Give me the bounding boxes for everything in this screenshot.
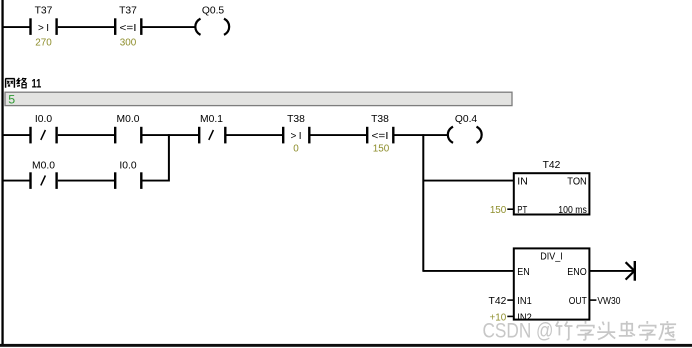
wire	[58, 180, 114, 182]
wire with branch junction	[143, 134, 199, 136]
wire	[227, 134, 283, 136]
svg-text:<=I: <=I	[372, 131, 389, 142]
svg-text:IN: IN	[517, 176, 528, 188]
wire	[58, 134, 114, 136]
coil Q0.5	[195, 6, 229, 35]
svg-text:VW30: VW30	[597, 296, 620, 307]
svg-text:M0.0: M0.0	[117, 114, 140, 125]
contact T37 <=I (compare)	[114, 6, 143, 49]
wire to coil with drop junction	[395, 134, 448, 136]
svg-text:150: 150	[490, 205, 507, 216]
box DIV_I	[489, 248, 621, 323]
wire to DIV_I EN	[423, 270, 514, 272]
svg-text:T42: T42	[543, 160, 561, 171]
contact I0.0 NO	[114, 161, 143, 189]
svg-text:Q0.5: Q0.5	[202, 6, 225, 17]
svg-text:100 ms: 100 ms	[558, 204, 587, 216]
wire	[3, 180, 30, 182]
svg-text:ENO: ENO	[567, 266, 587, 278]
wire	[143, 26, 196, 28]
svg-text:>I: >I	[38, 23, 49, 34]
svg-text:5: 5	[8, 92, 15, 106]
svg-text:CSDN @: CSDN @	[483, 320, 554, 343]
wire	[311, 134, 367, 136]
字	[577, 321, 594, 340]
svg-text:>I: >I	[291, 131, 302, 142]
vertical drop from rung2 to EN	[422, 134, 424, 272]
svg-text:150: 150	[373, 144, 390, 155]
contact M0.1 NC	[198, 114, 227, 144]
svg-text:IN1: IN1	[517, 295, 532, 307]
contact T37 >I (compare)	[29, 6, 58, 49]
svg-text:DIV_I: DIV_I	[540, 250, 563, 262]
网	[5, 79, 14, 88]
timer box T42 TON	[490, 160, 590, 216]
OUT pin value VW30	[589, 299, 596, 301]
底	[659, 321, 676, 340]
svg-text:OUT: OUT	[569, 295, 587, 307]
ENO output wire	[589, 270, 634, 272]
svg-text:T37: T37	[35, 6, 53, 17]
bottom black bar	[0, 344, 692, 347]
svg-text:0: 0	[293, 144, 299, 155]
竹	[556, 321, 573, 339]
coil Q0.4	[448, 114, 482, 143]
svg-text:PT: PT	[517, 204, 527, 216]
头	[597, 322, 615, 340]
PT pin value 150	[507, 208, 514, 210]
svg-text:EN: EN	[517, 266, 530, 278]
network comment bar	[5, 92, 512, 105]
IN2 pin value +10	[507, 315, 514, 317]
wire	[3, 134, 30, 136]
svg-text:<=I: <=I	[120, 23, 137, 34]
branch wire up to main rung	[143, 180, 169, 182]
svg-text:T38: T38	[287, 114, 305, 125]
络	[17, 78, 20, 86]
svg-text:M0.0: M0.0	[32, 161, 55, 172]
wire to T42 IN	[423, 180, 514, 182]
network title 网络 11	[5, 78, 27, 88]
svg-text:T37: T37	[119, 6, 137, 17]
contact M0.0 NO	[114, 114, 143, 144]
wire	[58, 26, 114, 28]
虫	[619, 321, 635, 336]
contact M0.0 NC	[29, 161, 58, 189]
IN1 pin value T42	[507, 299, 514, 301]
contact I0.0 NC	[29, 114, 58, 144]
svg-text:TON: TON	[567, 176, 587, 188]
wire rung1 rail to contact1	[3, 26, 30, 28]
svg-text:270: 270	[35, 37, 52, 48]
open line arrow	[626, 261, 635, 281]
contact T38 <=I	[366, 114, 395, 155]
power rail	[1, 0, 3, 345]
svg-text:I0.0: I0.0	[119, 161, 136, 172]
contact T38 >I	[282, 114, 311, 155]
svg-text:T38: T38	[371, 114, 389, 125]
svg-text:T42: T42	[489, 296, 507, 307]
svg-text:Q0.4: Q0.4	[455, 114, 478, 125]
svg-text:I0.0: I0.0	[35, 114, 52, 125]
字	[639, 321, 656, 340]
svg-text:M0.1: M0.1	[200, 114, 223, 125]
svg-text:300: 300	[120, 37, 137, 48]
svg-text:11: 11	[32, 79, 42, 91]
watermark CSDN @竹字头虫字底	[483, 320, 677, 343]
